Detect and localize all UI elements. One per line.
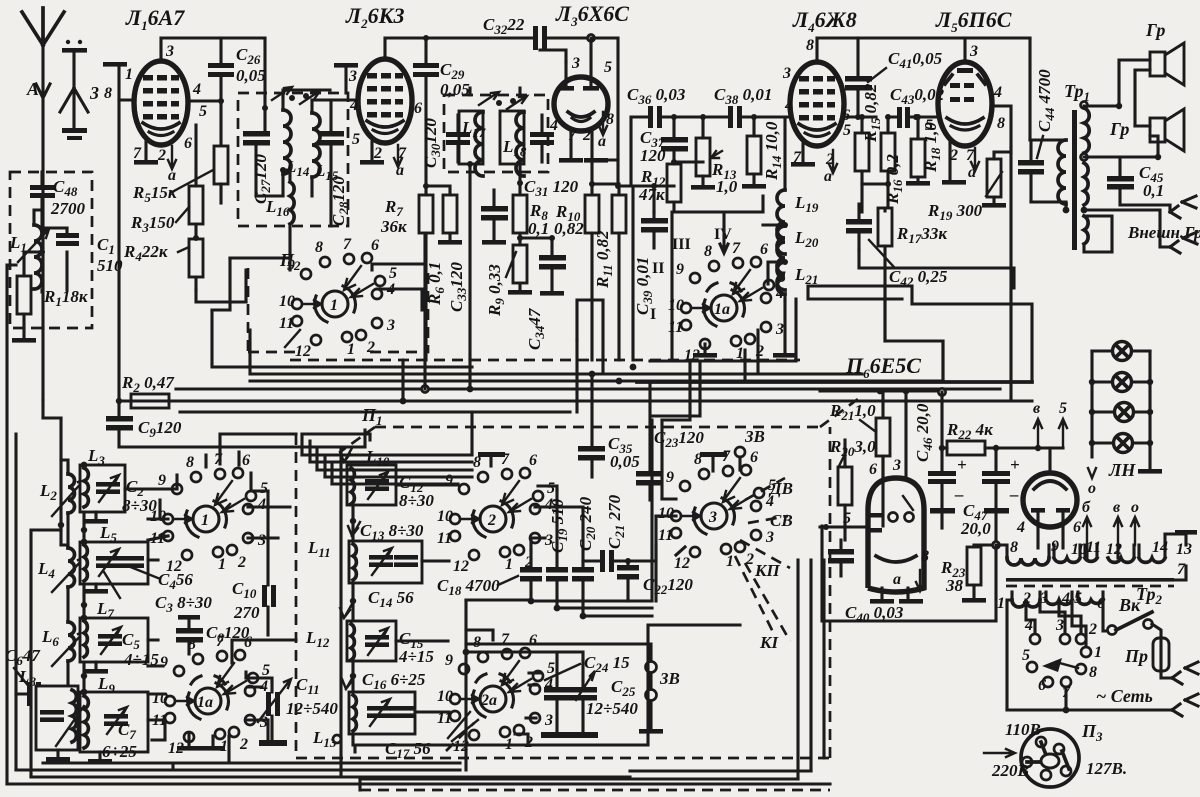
svg-text:5: 5 bbox=[352, 131, 360, 148]
svg-text:5: 5 bbox=[1022, 647, 1030, 664]
resistor R10 bbox=[554, 181, 599, 360]
svg-text:8: 8 bbox=[104, 85, 112, 102]
svg-text:4: 4 bbox=[784, 97, 793, 114]
wire L14 top to tube2 bbox=[283, 90, 358, 100]
svg-text:R18 1,0: R18 1,0 bbox=[921, 122, 943, 173]
svg-text:36к: 36к bbox=[380, 217, 407, 236]
svg-text:0,05: 0,05 bbox=[236, 66, 266, 85]
tank L13 C16 C17 bbox=[312, 670, 431, 761]
pin3 top lead bbox=[161, 38, 265, 108]
verticals from bus to bottom boxes bbox=[531, 420, 652, 601]
plate line down from top bbox=[591, 38, 618, 186]
svg-text:1а: 1а bbox=[714, 301, 730, 318]
resistor R11 bbox=[592, 160, 626, 360]
rectifier tube U7 bbox=[1016, 448, 1081, 536]
svg-text:220В: 220В bbox=[991, 761, 1029, 780]
svg-text:С456: С456 bbox=[158, 570, 193, 592]
wire from R4 bus down bbox=[212, 302, 230, 310]
Tr2 primary windings bbox=[997, 590, 1141, 615]
Tr1 primary coil bbox=[1058, 140, 1069, 213]
svg-text:20,0: 20,0 bbox=[960, 519, 991, 538]
capacitor C30 bbox=[421, 115, 470, 168]
resistor R18 bbox=[906, 114, 943, 186]
long bus lines middle bbox=[212, 310, 472, 367]
tank L5 C4 C3 bbox=[80, 523, 212, 615]
capacitor C21 bbox=[583, 494, 628, 572]
svg-text:3: 3 bbox=[782, 65, 791, 82]
wires from wafer1 bottom to up bus bbox=[206, 434, 296, 491]
capacitor C38 bbox=[674, 85, 790, 128]
svg-text:1: 1 bbox=[201, 512, 209, 529]
svg-text:А: А bbox=[26, 79, 39, 99]
eye pin5 lead bbox=[820, 525, 868, 528]
KI dashed diagonal bbox=[745, 563, 790, 641]
svg-text:4: 4 bbox=[1061, 590, 1070, 607]
wires wafer3 left contacts bbox=[656, 499, 685, 555]
tube5 cathode arrow bbox=[971, 148, 979, 171]
connection bus left to middle bbox=[160, 500, 168, 519]
svg-text:3: 3 bbox=[165, 43, 174, 60]
solid box switch P2 middle bbox=[650, 196, 796, 361]
extra verticals to bus bbox=[745, 330, 758, 381]
capacitor C35 bbox=[578, 374, 640, 477]
extra long verticals tube3 zone to buses bbox=[577, 300, 603, 374]
svg-text:С9120: С9120 bbox=[138, 418, 182, 440]
svg-text:9: 9 bbox=[1051, 538, 1059, 555]
box around eye section bbox=[822, 526, 996, 621]
svg-text:С20 240: С20 240 bbox=[576, 496, 598, 551]
wafer switch 1 bottom left bbox=[150, 451, 268, 575]
capacitor C37 bbox=[640, 117, 688, 165]
pin1 grid cap bbox=[103, 62, 135, 102]
svg-text:I: I bbox=[650, 306, 656, 323]
svg-text:КП: КП bbox=[754, 561, 781, 580]
resistor R17 bbox=[878, 208, 947, 382]
resistor R20 bbox=[829, 437, 876, 540]
wires tanks to wafer1 bottom bbox=[125, 489, 290, 540]
svg-text:КІ: КІ bbox=[759, 633, 780, 652]
svg-text:6: 6 bbox=[1073, 519, 1081, 536]
wafer switch 2a bbox=[437, 631, 555, 755]
wafer switch 1a bottom left bbox=[152, 633, 270, 757]
svg-text:6: 6 bbox=[184, 135, 192, 152]
capacitor C45 bbox=[1084, 157, 1170, 212]
grounds under wafer 1a bottom bbox=[187, 734, 190, 745]
svg-text:~ Сеть: ~ Сеть bbox=[1096, 686, 1153, 706]
svg-text:2: 2 bbox=[582, 127, 591, 144]
svg-text:С647: С647 bbox=[5, 646, 41, 668]
svg-text:Л56П6С: Л56П6С bbox=[935, 7, 1012, 35]
wire antenna to input bbox=[43, 400, 61, 418]
resistor R12 bbox=[638, 162, 681, 212]
svg-text:С21 270: С21 270 bbox=[605, 494, 627, 549]
big dashed box bottom middle bbox=[296, 427, 830, 758]
svg-text:8: 8 bbox=[997, 115, 1005, 132]
svg-text:2: 2 bbox=[1088, 621, 1097, 638]
svg-text:а: а bbox=[893, 571, 901, 588]
tube3 cathode leads and grounds bbox=[571, 131, 592, 158]
svg-text:о: о bbox=[1088, 480, 1096, 497]
svg-text:10: 10 bbox=[1071, 541, 1087, 558]
svg-text:3: 3 bbox=[1055, 617, 1064, 634]
capacitor C6 bbox=[5, 646, 52, 706]
resistor R21 bbox=[829, 391, 890, 526]
tube2 cathode arrow bbox=[394, 145, 402, 167]
resistor R5 bbox=[132, 101, 228, 205]
svg-text:СВ: СВ bbox=[770, 511, 793, 530]
resistor R2 bbox=[116, 373, 403, 408]
svg-text:R422к: R422к bbox=[123, 242, 168, 264]
eye cathode leads to ground bbox=[882, 588, 908, 598]
svg-text:4÷15: 4÷15 bbox=[398, 647, 434, 666]
svg-text:Пр: Пр bbox=[1124, 646, 1148, 666]
svg-text:0,82: 0,82 bbox=[554, 219, 584, 238]
wafer switch 2 bbox=[437, 451, 555, 575]
svg-text:R2 0,47: R2 0,47 bbox=[121, 373, 175, 395]
tube5 pin3 top lead bbox=[963, 38, 966, 62]
svg-text:R9 0,33: R9 0,33 bbox=[485, 264, 507, 317]
speaker2 bbox=[1084, 103, 1184, 160]
capacitor C28 bbox=[318, 100, 351, 226]
svg-text:6: 6 bbox=[869, 461, 877, 478]
wire plate junction to R10 R11 bbox=[592, 160, 633, 360]
wires L17/L18 verticals bbox=[470, 88, 520, 360]
svg-text:Л16А7: Л16А7 bbox=[125, 5, 185, 33]
coil L17 bbox=[459, 111, 486, 176]
wafer1a contact7 arrow from box bbox=[720, 212, 728, 253]
dashed box input bbox=[10, 172, 92, 328]
svg-text:II: II bbox=[652, 260, 664, 277]
svg-text:С16 6÷25: С16 6÷25 bbox=[362, 670, 426, 692]
svg-text:5: 5 bbox=[843, 122, 851, 139]
tube U2 6K3 bbox=[358, 59, 412, 143]
svg-text:38: 38 bbox=[945, 576, 964, 595]
top line right corner down bbox=[1028, 38, 1031, 140]
svg-text:7: 7 bbox=[1177, 561, 1186, 578]
svg-text:Л36Х6С: Л36Х6С bbox=[555, 1, 629, 29]
capacitor C42 bbox=[846, 204, 948, 289]
resistor R15 bbox=[855, 83, 883, 212]
ground under R1 bbox=[12, 338, 36, 343]
wire pin4 down bbox=[1009, 147, 1012, 401]
svg-text:о: о bbox=[1131, 499, 1139, 516]
potentiometer R13 bbox=[674, 114, 738, 196]
wire from mid to P6 area bbox=[883, 288, 886, 341]
svg-text:С31 120: С31 120 bbox=[524, 177, 579, 199]
dashed border around wafer 1 bbox=[248, 268, 428, 352]
wire R4 bottom to bus bbox=[196, 290, 230, 302]
capacitor C43 bbox=[888, 85, 945, 128]
svg-text:120: 120 bbox=[640, 146, 666, 165]
capacitor C27 bbox=[243, 105, 283, 204]
Tr1 core bbox=[1072, 110, 1077, 250]
ground above wafer3 bbox=[700, 452, 727, 457]
capacitor C41b bottom left of eye bbox=[828, 540, 854, 576]
svg-text:4: 4 bbox=[993, 84, 1002, 101]
svg-text:47к: 47к bbox=[638, 185, 665, 204]
svg-text:Вк: Вк bbox=[1118, 595, 1141, 615]
svg-text:3: 3 bbox=[89, 83, 99, 103]
svg-text:Л26К3: Л26К3 bbox=[345, 3, 405, 31]
rectifier leads down bbox=[1038, 527, 1063, 548]
svg-text:8÷30: 8÷30 bbox=[399, 491, 434, 510]
dash vertical from 392 node bbox=[905, 392, 908, 476]
svg-text:8: 8 bbox=[806, 37, 814, 54]
tube2 grid top bar bbox=[334, 63, 358, 93]
svg-text:б: б bbox=[1082, 499, 1091, 516]
capacitor C46 bbox=[913, 392, 967, 528]
cathode arrow pin2 bbox=[168, 146, 176, 169]
svg-text:127В.: 127В. bbox=[1086, 759, 1127, 778]
caps row C18 C19 C20 bbox=[437, 550, 542, 601]
svg-text:12: 12 bbox=[1106, 541, 1122, 558]
svg-text:3: 3 bbox=[892, 457, 901, 474]
capacitor C8 bbox=[176, 615, 250, 654]
capacitor C47 bbox=[960, 448, 1020, 545]
svg-text:4: 4 bbox=[349, 97, 358, 114]
speaker1 bbox=[1119, 20, 1184, 126]
svg-text:5: 5 bbox=[1059, 400, 1067, 417]
tank L8 bbox=[18, 667, 78, 762]
svg-text:270: 270 bbox=[233, 603, 260, 622]
svg-text:3: 3 bbox=[571, 55, 580, 72]
junction dots on buses bbox=[400, 398, 407, 405]
svg-text:R3150: R3150 bbox=[130, 213, 175, 235]
wires wafer2a to right bbox=[515, 673, 540, 745]
svg-text:6: 6 bbox=[414, 100, 422, 117]
capacitor C23 bbox=[636, 381, 704, 500]
capacitor C22 bbox=[617, 558, 693, 601]
left border wires bottom section bbox=[7, 265, 16, 784]
svg-text:2а: 2а bbox=[480, 692, 497, 709]
svg-text:3: 3 bbox=[348, 68, 357, 85]
tube4 pin6 junction to R15 bbox=[844, 115, 876, 118]
svg-text:R16 0,2: R16 0,2 bbox=[883, 154, 905, 205]
Tr1 secondary upper bbox=[1081, 102, 1090, 161]
resistor R9 bbox=[485, 235, 532, 317]
switch P3 contact field bbox=[1022, 617, 1102, 713]
R23 and C40 box bbox=[940, 542, 1000, 603]
svg-text:Гр: Гр bbox=[1109, 119, 1129, 139]
svg-text:С46 20,0: С46 20,0 bbox=[913, 403, 935, 462]
tube4 cathode arrow bbox=[829, 150, 837, 173]
eye pin6 pin3 leads bbox=[883, 391, 906, 478]
svg-text:0,05: 0,05 bbox=[610, 452, 640, 471]
svg-text:110В: 110В bbox=[1005, 720, 1041, 739]
resistor R8 bbox=[513, 183, 549, 238]
capacitor C32 bbox=[465, 15, 591, 50]
coil L16 bbox=[230, 167, 294, 258]
resistor R6 bbox=[425, 186, 462, 306]
tube U5 6P6S bbox=[938, 62, 992, 146]
resistor R4 bbox=[123, 235, 203, 290]
resistor R1 bbox=[17, 249, 88, 338]
grounds below wafer1a bbox=[703, 344, 706, 352]
capacitor C33 bbox=[447, 190, 508, 312]
coil L18 bbox=[500, 111, 527, 176]
svg-text:4: 4 bbox=[549, 117, 558, 134]
svg-text:2: 2 bbox=[487, 512, 496, 529]
svg-text:С13 8÷30: С13 8÷30 bbox=[360, 521, 424, 543]
svg-text:С410,05: С410,05 bbox=[888, 49, 943, 71]
svg-text:13: 13 bbox=[1176, 541, 1192, 558]
verticals from components to buses bbox=[403, 233, 577, 412]
capacitor C41 bbox=[845, 38, 943, 117]
svg-text:0,1: 0,1 bbox=[528, 219, 549, 238]
svg-text:5: 5 bbox=[199, 103, 207, 120]
resistor R22 bbox=[939, 420, 1063, 455]
resistor R14 bbox=[742, 117, 784, 189]
arrows v b to heaters bbox=[1033, 400, 1067, 451]
fuse Pr bbox=[1124, 638, 1198, 684]
coil L6 bbox=[41, 622, 85, 694]
resistor R7 bbox=[380, 183, 433, 360]
wires wafer2 right to caps bbox=[531, 486, 656, 561]
svg-text:5: 5 bbox=[1074, 590, 1082, 607]
capacitor C39 bbox=[631, 183, 674, 315]
svg-text:4: 4 bbox=[1024, 617, 1033, 634]
variable capacitor C11 bbox=[258, 675, 338, 746]
capacitor C36 bbox=[627, 85, 686, 186]
tube U1 6A7 bbox=[134, 61, 188, 145]
dashed diagonal bottom left of wafer2a bbox=[446, 723, 474, 751]
coil L2 bbox=[39, 460, 85, 548]
svg-text:3В: 3В bbox=[659, 669, 680, 688]
svg-text:4: 4 bbox=[1016, 519, 1025, 536]
svg-text:3В: 3В bbox=[744, 427, 765, 446]
svg-text:4: 4 bbox=[192, 81, 201, 98]
tube2 pin3 top lead bbox=[385, 38, 465, 59]
svg-text:R19 300: R19 300 bbox=[927, 201, 983, 223]
svg-text:С40 0,03: С40 0,03 bbox=[845, 603, 904, 625]
heater arrows b v o bbox=[1082, 499, 1139, 545]
wires to C24 C25 bbox=[466, 630, 583, 770]
capacitor C48 bbox=[30, 172, 86, 228]
left verticals of middle tanks bbox=[341, 450, 353, 777]
svg-text:6÷25: 6÷25 bbox=[102, 742, 137, 761]
wires from wafer1 to tube2 region bbox=[230, 258, 422, 310]
coil L9 tank bbox=[56, 674, 148, 764]
capacitor C34 bbox=[520, 235, 566, 350]
svg-text:ЛН: ЛН bbox=[1108, 460, 1136, 480]
magic eye tube U6 6E5S bbox=[843, 457, 929, 592]
Tr1 secondary lower bbox=[1081, 163, 1089, 213]
svg-text:2: 2 bbox=[373, 145, 382, 162]
svg-text:12÷540: 12÷540 bbox=[586, 699, 638, 718]
svg-text:в: в bbox=[1113, 499, 1120, 516]
svg-text:1: 1 bbox=[330, 297, 338, 314]
bottom net wire bbox=[1007, 694, 1198, 716]
svg-text:R11 0,82: R11 0,82 bbox=[593, 230, 615, 289]
svg-text:5: 5 bbox=[604, 59, 612, 76]
svg-text:0,1: 0,1 bbox=[1143, 181, 1164, 200]
svg-text:С44 4700: С44 4700 bbox=[1035, 69, 1057, 132]
svg-text:1,0: 1,0 bbox=[716, 177, 738, 196]
svg-text:2: 2 bbox=[157, 147, 166, 164]
Tr2 core bbox=[1006, 561, 1186, 607]
svg-text:12÷540: 12÷540 bbox=[286, 699, 338, 718]
capacitor C9 bbox=[106, 401, 365, 447]
tube3 pin8 arrow bbox=[599, 112, 607, 135]
antenna line junction bbox=[43, 418, 61, 545]
svg-text:R515к: R515к bbox=[132, 183, 177, 205]
svg-text:С3 8÷30: С3 8÷30 bbox=[155, 593, 212, 615]
switch contacts above L14 bbox=[272, 87, 292, 100]
wafer switch 1 top bbox=[279, 236, 397, 360]
svg-text:С36 0,03: С36 0,03 bbox=[627, 85, 686, 107]
tank L11 C13 C14 bbox=[307, 521, 424, 610]
svg-text:11: 11 bbox=[1086, 539, 1101, 556]
svg-text:7: 7 bbox=[133, 145, 142, 162]
capacitor C1 bbox=[34, 210, 123, 292]
Tr2 filament windings row bbox=[996, 530, 1197, 565]
svg-text:R118к: R118к bbox=[43, 287, 88, 309]
lamps LN bbox=[1088, 342, 1162, 498]
tube4 pin7 ground bbox=[801, 144, 804, 162]
feedback wires L19 taps bbox=[763, 225, 785, 284]
wires under caps row bbox=[466, 600, 652, 616]
dashed box IF1 L14 L15 L16 bbox=[238, 93, 348, 226]
resistor R16 bbox=[862, 114, 905, 211]
nested box corners right of tanks bbox=[302, 434, 332, 484]
wafer2a pin7 lead up bbox=[466, 600, 493, 640]
tank L12 C15 bbox=[305, 604, 434, 666]
pin8 wire down bbox=[117, 100, 120, 403]
svg-text:8: 8 bbox=[1089, 664, 1097, 681]
wire L16 to wafer bbox=[230, 258, 246, 302]
capacitors C24 C25 bbox=[541, 652, 630, 738]
svg-text:в: в bbox=[1033, 400, 1040, 417]
svg-text:+: + bbox=[1010, 455, 1020, 474]
feedback rectangle corners bbox=[808, 286, 1032, 382]
pin7 ground bbox=[144, 140, 147, 160]
coil L14 bbox=[283, 96, 310, 196]
capacitor C31cap bbox=[530, 115, 554, 162]
tube5 pin2 ground bbox=[948, 140, 951, 180]
coils L19 L20 L21 bbox=[777, 190, 819, 254]
wafer switch 1a top bbox=[668, 240, 786, 364]
svg-text:R1733к: R1733к bbox=[896, 224, 947, 246]
svg-text:14: 14 bbox=[1152, 539, 1168, 556]
svg-text:2700: 2700 bbox=[50, 199, 86, 218]
power switch Vk bbox=[1108, 612, 1162, 637]
ground above wafer2 bbox=[478, 452, 505, 457]
tank L7 C5 bbox=[80, 599, 159, 674]
svg-text:С33120: С33120 bbox=[447, 262, 469, 312]
svg-text:3: 3 bbox=[969, 43, 978, 60]
antenna A bbox=[22, 8, 64, 400]
tank L3 C2 bbox=[80, 446, 157, 524]
wafer switch 3 bbox=[658, 448, 776, 572]
tube4 pin8 top lead bbox=[817, 38, 1030, 62]
wires middle tanks to wafer2 bbox=[396, 485, 458, 712]
dashed diagonals at wafer3 bbox=[735, 478, 790, 636]
svg-text:С28120: С28120 bbox=[329, 176, 351, 226]
resistor R3 bbox=[130, 125, 203, 238]
svg-text:С30120: С30120 bbox=[421, 118, 443, 168]
tube U4 6Zh8 bbox=[790, 62, 844, 146]
external speaker terminals bbox=[1084, 196, 1200, 253]
wires from switch box middle down to wafer3 bbox=[652, 361, 700, 420]
misc vertical wires wafer1a bottom to bottom returns bbox=[152, 640, 296, 763]
capacitor C29 bbox=[413, 35, 470, 186]
svg-text:R14 10,0: R14 10,0 bbox=[762, 121, 784, 181]
switch arrows above L17 L18 bbox=[479, 92, 499, 105]
svg-text:8: 8 bbox=[921, 548, 929, 565]
svg-text:Л46Ж8: Л46Ж8 bbox=[792, 7, 857, 35]
coil L4 bbox=[37, 545, 85, 622]
nested rectangles bottom middle bbox=[355, 625, 740, 745]
